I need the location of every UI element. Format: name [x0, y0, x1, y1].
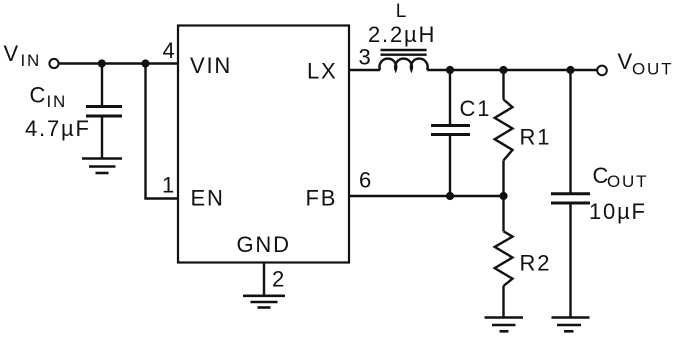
label COUT designator	[593, 163, 649, 191]
node: CIN tap junction	[98, 59, 106, 67]
svg-text:FB: FB	[306, 186, 338, 211]
svg-text:OUT: OUT	[607, 172, 648, 191]
terminal VIN (open circle)	[49, 59, 58, 68]
label VIN net name	[4, 41, 42, 70]
node: R1/R2 FB junction	[499, 192, 507, 200]
svg-text:4: 4	[163, 38, 177, 63]
ground (below R2)	[485, 318, 524, 332]
svg-text:C1: C1	[460, 96, 492, 121]
node: C1 top junction	[446, 66, 454, 74]
inductor L (3 humps)	[379, 59, 427, 70]
node: C1 bottom junction	[446, 192, 454, 200]
svg-text:C: C	[30, 83, 48, 108]
wire LX output to VOUT	[427, 69, 597, 71]
wire C1 bottom lead	[449, 135, 451, 197]
svg-text:10µF: 10µF	[589, 199, 647, 224]
node: R1 top junction	[499, 66, 507, 74]
svg-text:R1: R1	[520, 124, 552, 149]
wire CIN branch (top)	[101, 64, 103, 107]
wire LX pin stub	[349, 69, 380, 71]
svg-text:R2: R2	[520, 250, 552, 275]
IC U1 body	[178, 26, 349, 263]
capacitor COUT	[551, 194, 590, 203]
resistor R1	[495, 70, 513, 196]
svg-text:3: 3	[359, 45, 373, 70]
capacitor C1	[431, 126, 470, 135]
svg-text:OUT: OUT	[632, 60, 673, 79]
resistor R2	[495, 196, 513, 317]
svg-text:IN: IN	[47, 92, 68, 111]
wire VIN input	[60, 62, 179, 64]
svg-text:2.2µH: 2.2µH	[368, 22, 436, 47]
svg-text:4.7µF: 4.7µF	[25, 116, 91, 141]
ground (below CIN)	[82, 159, 122, 174]
svg-text:LX: LX	[307, 59, 338, 84]
label CIN designator	[30, 83, 68, 112]
wire C1 top lead	[449, 70, 451, 125]
svg-text:6: 6	[359, 168, 373, 193]
wire COUT to ground	[569, 203, 571, 317]
wire FB	[349, 195, 504, 197]
svg-text:L: L	[396, 1, 408, 22]
svg-text:IN: IN	[21, 51, 42, 70]
inductor L core bars	[381, 50, 427, 55]
ground (below GND pin)	[243, 296, 285, 308]
wire COUT top lead	[569, 70, 571, 193]
ground (below COUT)	[552, 318, 590, 332]
wire GND pin stub	[263, 263, 265, 296]
wire EN branch	[146, 64, 179, 199]
svg-text:V: V	[4, 41, 20, 66]
label VOUT net name	[618, 49, 674, 79]
node: COUT top junction	[566, 66, 574, 74]
svg-text:EN: EN	[191, 186, 225, 211]
svg-text:2: 2	[272, 267, 286, 292]
svg-text:VIN: VIN	[190, 53, 232, 78]
terminal VOUT (open circle)	[597, 66, 607, 76]
svg-text:1: 1	[162, 173, 176, 198]
svg-text:GND: GND	[237, 232, 291, 257]
wire CIN to ground	[101, 116, 103, 158]
capacitor CIN	[86, 107, 122, 117]
node: EN tap junction	[141, 59, 149, 67]
